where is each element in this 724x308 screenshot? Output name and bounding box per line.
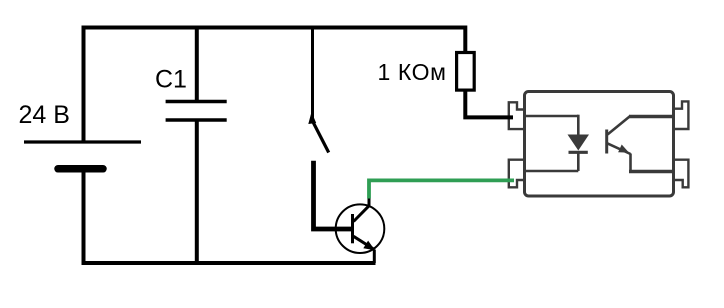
phototransistor base bar — [605, 130, 608, 154]
capacitor C1 bottom plate — [166, 118, 227, 122]
phototransistor emitter wire — [629, 154, 632, 172]
switch lower terminal wire to transistor base — [314, 161, 353, 229]
LED triangle — [568, 135, 590, 151]
svg-text:C1: C1 — [155, 66, 187, 94]
transistor Q1 circle — [336, 204, 385, 253]
LED cathode wire — [577, 152, 580, 171]
switch upper terminal wire — [311, 28, 314, 120]
optocoupler U1 pin 4 top-right — [673, 101, 689, 129]
optocoupler U1 pin 1 top-left — [509, 102, 526, 129]
capacitor C1 top plate — [166, 100, 227, 104]
LED cathode bar — [569, 151, 588, 154]
wire left vertical from battery to bottom rail — [82, 169, 86, 265]
LED anode wire — [526, 115, 578, 118]
wire capacitor branch lower — [195, 120, 199, 263]
optocoupler U1 pin 2 bottom-left — [509, 160, 526, 188]
phototransistor collector — [608, 116, 631, 135]
wire green collector to optocoupler — [369, 180, 514, 198]
transistor Q1 collector — [354, 206, 370, 222]
phototransistor emitter arrow — [618, 145, 629, 153]
phototransistor emitter — [608, 143, 631, 154]
battery 24V negative plate — [58, 165, 103, 173]
transistor Q1 base bar — [351, 214, 354, 243]
transistor Q1 emitter arrow — [363, 241, 375, 251]
transistor Q1 emitter — [354, 236, 375, 249]
wire emitter to bottom rail — [373, 250, 376, 264]
wire left vertical from top rail to battery — [82, 26, 86, 142]
battery 24V positive plate — [24, 140, 141, 143]
switch blade arrowhead — [308, 112, 316, 124]
optocoupler U1 pin 3 bottom-right — [673, 160, 689, 188]
wire resistor to optocoupler — [465, 91, 513, 117]
switch blade — [313, 121, 329, 153]
svg-text:1 КОм: 1 КОм — [378, 59, 447, 85]
svg-text:24 В: 24 В — [19, 101, 70, 129]
optocoupler U1 body — [525, 92, 674, 197]
resistor R1 body — [457, 53, 475, 91]
wire capacitor branch upper — [195, 28, 199, 102]
wire top rail — [82, 28, 466, 54]
wire bottom rail — [82, 261, 376, 265]
